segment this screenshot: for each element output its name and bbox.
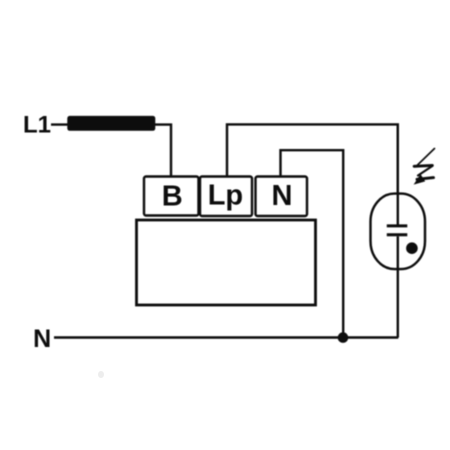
wire fuse to terminal B	[155, 125, 171, 177]
svg-text:Lp: Lp	[208, 180, 243, 212]
svg-text:B: B	[162, 180, 183, 212]
wire terminal N to neutral junction	[281, 150, 344, 337]
wire terminal Lp to lamp	[227, 124, 398, 194]
device box (switch body)	[137, 220, 316, 305]
lamp gas dot	[406, 242, 418, 254]
lamp top electrode lead	[397, 124, 399, 224]
light arrow (photocell symbol)	[414, 149, 435, 185]
lamp E1 (discharge lamp)	[371, 194, 426, 270]
svg-text:L1: L1	[23, 112, 51, 139]
junction dot	[338, 332, 349, 343]
svg-text:N: N	[33, 325, 51, 353]
terminal B	[144, 177, 199, 216]
fuse F1 (thick bar)	[67, 116, 155, 131]
terminal N	[256, 177, 308, 217]
lamp bottom electrode plate	[387, 233, 408, 236]
terminal Lp	[200, 177, 252, 217]
wire L1 to fuse	[51, 123, 69, 125]
lamp top electrode plate	[387, 224, 408, 227]
svg-text:N: N	[272, 180, 293, 212]
wire neutral N	[54, 336, 398, 338]
lamp bottom electrode lead / wire to neutral	[397, 236, 399, 337]
